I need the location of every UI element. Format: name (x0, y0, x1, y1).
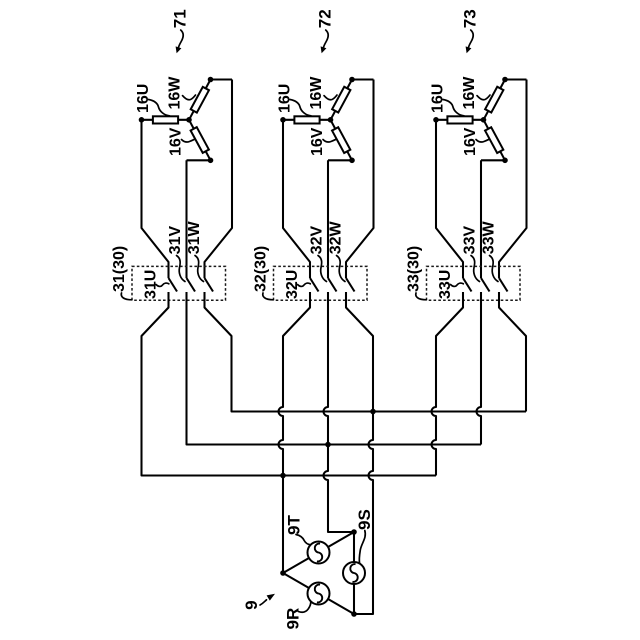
wire: 16V arm (unit 73) (484, 120, 506, 161)
svg-text:16V: 16V (168, 127, 185, 156)
switch contact 31W blade (205, 278, 214, 292)
svg-text:16U: 16U (429, 84, 446, 113)
switch contact 33U blade (463, 278, 472, 292)
leader for 31U (156, 283, 169, 286)
wire: unit 73 W-phase drop (499, 292, 526, 412)
svg-text:31(30): 31(30) (111, 246, 128, 292)
node: W terminal dot (unit 73) (502, 77, 508, 83)
wire: unit 73 U-phase drop (432, 292, 463, 476)
leader for 32U (298, 283, 311, 286)
leader for 32W (337, 256, 346, 282)
wire: 16U lead (unit 73) (436, 119, 484, 121)
svg-text:32W: 32W (327, 221, 344, 255)
svg-text:32V: 32V (309, 226, 326, 255)
wire: 16W arm (unit 72) (331, 80, 353, 120)
svg-text:33V: 33V (462, 226, 479, 255)
leader for 16U (unit 72) (290, 100, 311, 116)
switch contact 31U blade (169, 278, 178, 292)
resistor winding 16U (unit 72) (294, 116, 319, 123)
AC source 9T sine symbol (313, 543, 325, 562)
leader for 31W (195, 256, 204, 282)
wire: unit 71 V-phase drop + bus row S (187, 292, 482, 445)
source delta edge (right vertical) (353, 532, 355, 614)
junction dot bus T / 72W (370, 409, 376, 415)
wire: 16U lead (unit 72) (283, 119, 331, 121)
wire: V-phase bottom jog (unit 72) (328, 159, 352, 161)
resistor winding 16W (unit 72) (332, 87, 350, 113)
leader for 16W (unit 72) (324, 95, 337, 100)
svg-text:33(30): 33(30) (406, 246, 423, 292)
node: source vertex top (351, 529, 357, 535)
resistor winding 16U (unit 73) (447, 116, 472, 123)
leader for 16V (unit 73) (476, 139, 489, 142)
leader arrow for 72 (324, 30, 329, 48)
wire: 16V arm (unit 71) (189, 120, 211, 161)
node: U terminal dot (unit 71) (139, 117, 145, 123)
junction dot bus R / 72U (280, 473, 286, 479)
AC source 9S circle (343, 562, 365, 584)
leader for 16W (unit 73) (477, 95, 490, 100)
wire: unit 71 W-phase drop + bus row T (205, 292, 527, 412)
wire: W-phase top jog (unit 72) (352, 78, 374, 80)
leader for 16U (unit 71) (149, 100, 170, 116)
svg-text:9T: 9T (285, 515, 304, 535)
wire: unit 72 U-phase drop to source node (279, 292, 311, 573)
source delta edge (R-bottom) (283, 573, 354, 614)
contactor enclosure 32(30) dashed box (274, 266, 368, 300)
leader for 9S (359, 531, 365, 564)
wire: 16W arm (unit 71) (189, 80, 211, 120)
node: W terminal dot (unit 72) (349, 77, 355, 83)
svg-text:33U: 33U (437, 270, 454, 299)
switch contact 32V blade (328, 278, 337, 292)
wire: V-phase bottom jog (unit 73) (481, 159, 505, 161)
wire: W-phase top jog (unit 73) (505, 78, 527, 80)
svg-text:9S: 9S (355, 509, 374, 530)
wire: U feeder into switch 33U (436, 120, 463, 278)
node: star point dot (unit 73) (481, 117, 487, 123)
leader for 32V (318, 256, 327, 282)
wire: 16W arm (unit 73) (484, 80, 506, 120)
svg-text:31U: 31U (143, 270, 160, 299)
leader for 16V (unit 71) (182, 139, 195, 142)
resistor winding 16V (unit 71) (191, 127, 209, 153)
wire: unit 73 V-phase drop (477, 292, 481, 445)
wire: unit 71 U-phase drop + bus row R (142, 292, 437, 476)
svg-text:31W: 31W (186, 221, 203, 255)
svg-text:16U: 16U (276, 84, 293, 113)
node: V terminal dot (unit 71) (208, 158, 214, 164)
svg-text:16W: 16W (461, 76, 478, 110)
wire: unit 72 V-phase drop to source node (324, 292, 354, 532)
switch contact 32W blade (346, 278, 355, 292)
wire: V feeder into switch 33V (480, 160, 482, 278)
node: V terminal dot (unit 72) (349, 158, 355, 164)
svg-text:31V: 31V (167, 226, 184, 255)
node: V terminal dot (unit 73) (502, 158, 508, 164)
contactor enclosure 33(30) dashed box (427, 266, 521, 300)
svg-text:71: 71 (171, 9, 190, 28)
svg-text:73: 73 (461, 9, 480, 28)
wire: 16V arm (unit 72) (331, 120, 353, 161)
wire: V feeder into switch 32V (327, 160, 329, 278)
switch contact 31V blade (187, 278, 196, 292)
leader for 16W (unit 71) (183, 95, 196, 100)
junction dot bus S / 72V (325, 442, 331, 448)
leader arrow for 9 (260, 600, 267, 605)
wire: V-phase bottom jog (unit 71) (187, 159, 211, 161)
resistor winding 16W (unit 71) (191, 87, 209, 113)
wire: W feeder into switch 33W (499, 80, 527, 279)
AC source 9R circle (308, 583, 330, 605)
node: star point dot (unit 71) (186, 117, 192, 123)
switch contact 32U blade (310, 278, 319, 292)
switch contact 33V blade (481, 278, 490, 292)
switch contact 33W blade (499, 278, 508, 292)
svg-text:72: 72 (316, 9, 335, 28)
node: U terminal dot (unit 72) (280, 117, 286, 123)
resistor winding 16V (unit 73) (485, 127, 503, 153)
AC source 9R sine symbol (313, 584, 325, 603)
leader for 33V (471, 256, 480, 282)
node: U terminal dot (unit 73) (433, 117, 439, 123)
leader for 9R (298, 602, 311, 613)
wire: V feeder into switch 31V (185, 160, 187, 278)
svg-text:16V: 16V (462, 127, 479, 156)
wire: W-phase top jog (unit 71) (211, 78, 233, 80)
wire: W feeder into switch 31W (205, 80, 233, 279)
svg-text:16W: 16W (308, 76, 325, 110)
leader for 32(30) (263, 293, 274, 300)
leader arrow for 73 (469, 30, 474, 48)
resistor winding 16W (unit 73) (485, 87, 503, 113)
svg-text:33W: 33W (480, 221, 497, 255)
node: source vertex bottom (351, 611, 357, 617)
node: W terminal dot (unit 71) (208, 77, 214, 83)
source delta edge (R-T) (283, 532, 354, 573)
leader for 33W (490, 256, 499, 282)
wire: unit 72 W-phase drop to source node (346, 292, 373, 614)
leader for 16V (unit 72) (323, 139, 336, 142)
svg-text:16W: 16W (166, 76, 183, 110)
node: source vertex left (280, 570, 286, 576)
svg-text:16V: 16V (309, 127, 326, 156)
wire: U feeder into switch 32U (283, 120, 310, 278)
resistor winding 16U (unit 71) (153, 116, 178, 123)
contactor enclosure 31(30) dashed box (132, 266, 226, 300)
leader for 31(30) (121, 293, 132, 300)
node: star point dot (unit 72) (328, 117, 334, 123)
wire: 16U lead (unit 71) (142, 119, 190, 121)
leader arrow for 71 (179, 30, 184, 48)
svg-text:9: 9 (242, 600, 261, 609)
svg-text:32(30): 32(30) (253, 246, 270, 292)
svg-text:16U: 16U (135, 84, 152, 113)
leader for 33(30) (416, 293, 427, 300)
svg-text:32U: 32U (284, 270, 301, 299)
leader for 31V (177, 256, 186, 282)
leader for 33U (451, 283, 464, 286)
AC source 9T circle (308, 542, 330, 564)
wire: W feeder into switch 32W (346, 80, 374, 279)
leader for 9T (296, 535, 311, 545)
resistor winding 16V (unit 72) (332, 127, 350, 153)
AC source 9S sine symbol (348, 563, 360, 582)
wire: U feeder into switch 31U (142, 120, 169, 278)
leader for 16U (unit 73) (443, 100, 464, 116)
